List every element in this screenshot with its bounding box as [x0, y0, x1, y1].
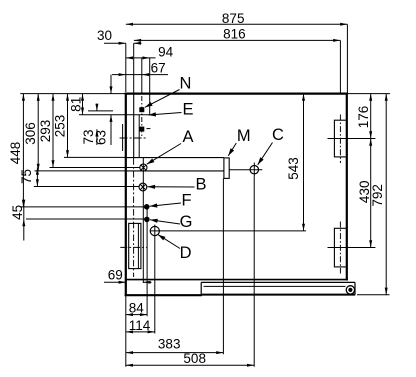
svg-text:293: 293	[38, 120, 53, 143]
vertical feature line through A,B	[142, 157, 144, 283]
label D leader	[158, 235, 180, 249]
dim 306	[37, 94, 39, 171]
svg-text:448: 448	[8, 142, 23, 165]
ext bottom right y=294.8	[357, 294, 390, 296]
svg-text:543: 543	[286, 157, 301, 180]
lower-left rectangle feature	[129, 223, 141, 268]
dim 792	[385, 94, 387, 295]
ext y=170.9 (306)	[35, 170, 127, 172]
ext y=167.5 (293/A)	[50, 167, 140, 169]
dim 63 upper arrow at top edge	[110, 75, 112, 94]
ext 875 vertical	[346, 24, 348, 93]
machine body outline	[125, 92, 348, 94]
ext C down to 508	[253, 177, 255, 367]
center lines of lower right rect	[339, 222, 341, 274]
dim 75	[36, 168, 38, 187]
svg-text:C: C	[272, 126, 284, 144]
upper right rectangle feature	[334, 120, 346, 157]
svg-text:792: 792	[370, 184, 385, 207]
step line y=114.7	[79, 114, 150, 116]
svg-text:875: 875	[222, 11, 245, 26]
arm top edge	[127, 157, 224, 159]
dim 84	[126, 314, 147, 316]
label M leader	[228, 143, 236, 156]
ext 816 vertical	[339, 40, 341, 93]
dim 383	[126, 352, 224, 354]
ext y=186.5 (75/B)	[34, 186, 139, 188]
dim 73	[96, 104, 98, 111]
pocket side line	[138, 115, 140, 158]
inner feature line x=133.7	[133, 94, 135, 159]
ext y=157.4 (253)	[64, 156, 127, 158]
short line y=110.9	[88, 110, 113, 112]
lower right rectangle feature	[334, 228, 346, 267]
svg-text:30: 30	[97, 28, 112, 43]
svg-text:A: A	[182, 128, 193, 146]
svg-text:75: 75	[19, 169, 34, 184]
label F leader	[150, 203, 181, 206]
point B circle	[139, 183, 147, 191]
dim 63 lower part	[110, 115, 112, 145]
dim 45	[23, 200, 25, 241]
svg-text:253: 253	[53, 115, 68, 138]
center lines of upper right rect	[339, 115, 341, 164]
wheel/roller	[346, 286, 354, 294]
dim 816	[134, 39, 341, 41]
svg-text:63: 63	[94, 130, 109, 145]
dim 30	[104, 42, 126, 44]
dim 94	[126, 57, 156, 59]
label A leader	[147, 144, 181, 165]
svg-text:114: 114	[129, 318, 151, 333]
svg-text:69: 69	[108, 268, 123, 283]
ext M tab down to 383	[222, 178, 224, 354]
arm bottom edge	[127, 170, 224, 172]
svg-text:F: F	[181, 191, 191, 209]
svg-text:383: 383	[158, 337, 181, 352]
ext 30/94/67 left column	[125, 43, 127, 92]
dim 543	[303, 94, 305, 231]
tick line left of body edge	[122, 124, 124, 151]
label E leader	[148, 113, 181, 116]
ext G down to 84 dim	[146, 209, 148, 317]
svg-text:94: 94	[158, 44, 174, 59]
label G leader	[150, 220, 180, 224]
top ext line left of body	[20, 93, 126, 95]
dim 875	[126, 23, 348, 25]
tab M rectangle	[224, 158, 229, 179]
label N leader	[145, 90, 180, 108]
label C leader	[258, 143, 273, 165]
dim 430	[370, 139, 372, 248]
dim 176	[370, 94, 372, 139]
svg-text:D: D	[180, 244, 192, 262]
svg-text:176: 176	[356, 106, 371, 129]
ext D down to 114 dim	[154, 238, 156, 334]
ext y=230.9 (543/D)	[150, 230, 306, 232]
dim 253	[67, 94, 69, 158]
point G dot	[145, 217, 150, 222]
center line horizontal of lower-left rect	[120, 246, 146, 248]
base rail	[200, 282, 202, 295]
svg-text:508: 508	[183, 351, 206, 366]
center line (dash-dot) x=133.6	[133, 158, 135, 277]
ext y=206.9 (448/F)	[20, 206, 145, 208]
feature line x=149.7 (ext of 94)	[149, 58, 151, 115]
svg-text:G: G	[180, 213, 193, 231]
svg-text:B: B	[195, 176, 206, 194]
svg-text:81: 81	[69, 97, 84, 112]
svg-text:67: 67	[151, 60, 166, 75]
dim 448	[22, 94, 24, 207]
dim 69	[104, 281, 126, 283]
svg-text:816: 816	[223, 27, 246, 42]
svg-text:M: M	[237, 127, 251, 145]
point A circle	[140, 164, 147, 171]
svg-text:N: N	[179, 74, 191, 92]
dim 508	[126, 364, 254, 366]
svg-text:45: 45	[10, 205, 25, 220]
svg-text:306: 306	[23, 122, 38, 145]
point F dot	[144, 205, 149, 210]
hole C circle	[250, 166, 258, 174]
svg-text:84: 84	[129, 301, 145, 316]
dim 114	[126, 331, 155, 333]
ext left edge down	[125, 297, 127, 367]
square E (pad)	[139, 127, 144, 132]
square N (pad)	[139, 107, 144, 112]
dim 293	[52, 94, 54, 168]
ext y=219.0 (45/G)	[26, 218, 145, 220]
point D circle	[150, 226, 159, 235]
cross mark at left center line	[120, 137, 146, 139]
top ext line right of body	[348, 93, 390, 95]
svg-text:E: E	[182, 100, 193, 118]
dim 67	[112, 74, 168, 76]
label B leader	[148, 186, 195, 188]
feature line x=141.8 (ext of 67)	[141, 75, 143, 94]
center line through squares N,E	[141, 96, 143, 137]
dim 81	[82, 94, 84, 115]
